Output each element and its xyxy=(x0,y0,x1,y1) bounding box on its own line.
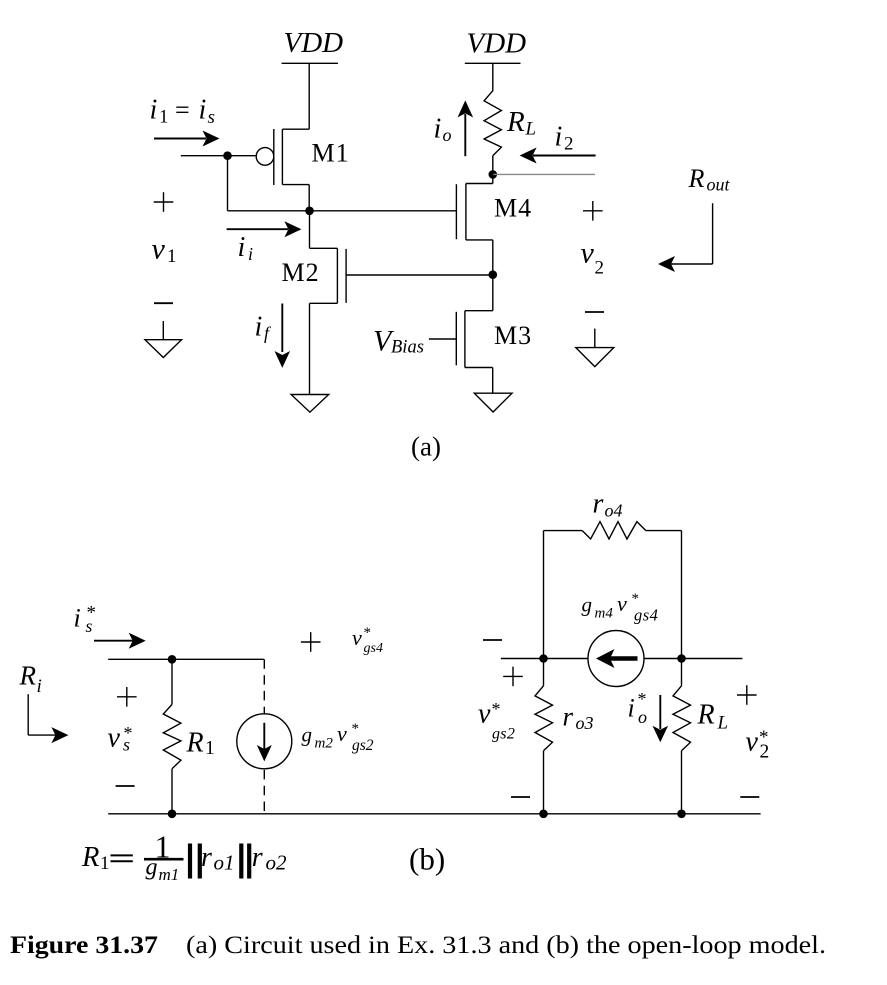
svg-text:gs2: gs2 xyxy=(352,737,374,754)
node I dot (ro3 bottom) xyxy=(539,810,548,819)
svg-text:i: i xyxy=(434,114,442,145)
label (a) xyxy=(411,432,441,462)
svg-text:i: i xyxy=(37,676,42,697)
ground under M2 xyxy=(291,395,329,413)
label vgs2* xyxy=(478,699,515,743)
resistor R1 xyxy=(163,659,214,814)
svg-text:L: L xyxy=(717,713,729,734)
ground left (v1) xyxy=(145,321,182,358)
resistor RL (b) xyxy=(673,659,728,814)
minus sign vgs4 xyxy=(483,639,502,641)
node A dot xyxy=(223,151,232,160)
label io xyxy=(434,114,452,146)
wire ro4 loop left vertical xyxy=(543,531,545,659)
svg-text:v: v xyxy=(337,721,347,746)
svg-text:R: R xyxy=(688,164,705,193)
resistor ro4 xyxy=(582,489,646,540)
arrow i1/is xyxy=(154,131,220,147)
svg-text:R: R xyxy=(81,842,99,873)
svg-text:VDD: VDD xyxy=(284,27,344,59)
wire ro4 top right xyxy=(646,530,682,532)
svg-text:Bias: Bias xyxy=(391,338,424,358)
svg-text:v: v xyxy=(581,237,595,270)
svg-text:(a) Circuit used in Ex. 31.3 a: (a) Circuit used in Ex. 31.3 and (b) the… xyxy=(186,932,826,959)
svg-text:r: r xyxy=(252,842,263,873)
label i1 = is xyxy=(150,95,215,129)
minus sign vs* xyxy=(116,785,135,787)
plus sign vs* xyxy=(117,687,137,707)
plus sign v1 xyxy=(154,192,174,212)
label vgs4* xyxy=(352,625,383,656)
svg-text:*: * xyxy=(638,689,647,709)
svg-text:M1: M1 xyxy=(312,139,350,168)
arrow io xyxy=(458,100,474,156)
svg-text:*: * xyxy=(352,721,360,737)
label v2 xyxy=(581,237,605,279)
current source gm4vgs4 xyxy=(588,631,644,687)
svg-text:v: v xyxy=(478,699,491,730)
current source gm2vgs2 xyxy=(237,714,292,769)
svg-text:Figure 31.37: Figure 31.37 xyxy=(10,932,158,959)
parallel bars 2 xyxy=(241,844,249,879)
wire mid rail (b) right xyxy=(501,658,743,660)
svg-text:1: 1 xyxy=(167,246,177,267)
wire VDD to RL xyxy=(492,63,494,91)
svg-text:*: * xyxy=(492,699,501,719)
svg-text:r: r xyxy=(201,842,212,873)
svg-text:=: = xyxy=(175,96,190,125)
svg-text:r: r xyxy=(593,489,604,520)
svg-text:o: o xyxy=(638,707,647,727)
resistor RL (a) xyxy=(484,91,536,175)
label gm4 vgs4* xyxy=(582,591,659,625)
svg-text:R: R xyxy=(697,700,715,731)
svg-text:v: v xyxy=(152,233,166,266)
label vs* xyxy=(108,723,133,755)
label v1 xyxy=(152,233,177,268)
svg-text:VDD: VDD xyxy=(467,28,527,60)
svg-text:*: * xyxy=(364,625,372,641)
svg-text:gs4: gs4 xyxy=(634,606,658,625)
wire top rail (b) left xyxy=(108,658,264,660)
arrow is* xyxy=(94,633,146,649)
svg-text:v: v xyxy=(746,727,759,758)
svg-text:1: 1 xyxy=(100,853,110,874)
wire node A down and right to gate bus xyxy=(228,156,457,211)
wire ro4 top left xyxy=(544,530,583,532)
gray wire node C to right xyxy=(493,173,595,175)
wire bottom rail (b) xyxy=(108,813,760,815)
label v2* xyxy=(746,727,770,763)
plus sign vgs4 xyxy=(301,632,321,652)
minus sign v1 xyxy=(154,302,173,304)
svg-text:g: g xyxy=(582,593,593,617)
node H dot (R1 bottom) xyxy=(168,810,177,819)
svg-text:v: v xyxy=(352,625,362,650)
svg-text:o2: o2 xyxy=(266,851,288,875)
label is* xyxy=(74,603,97,637)
label Rout xyxy=(688,164,731,195)
node E dot xyxy=(168,655,177,664)
svg-text:m2: m2 xyxy=(315,736,334,752)
svg-text:R: R xyxy=(506,106,525,138)
Ri pointer arrow xyxy=(28,694,68,743)
minus sign v2* (bottom) xyxy=(740,796,759,798)
Rout pointer arrow xyxy=(658,203,713,272)
transistor M1 (PMOS) xyxy=(256,129,349,211)
svg-text:o4: o4 xyxy=(605,501,623,521)
node D dot (M4 source / M3 drain / M2 gate) xyxy=(489,270,498,279)
VDD supply symbol left xyxy=(282,27,344,63)
svg-text:gs2: gs2 xyxy=(492,726,515,743)
label gm2 vgs2* xyxy=(302,721,374,754)
svg-text:s: s xyxy=(123,735,130,755)
VDD supply symbol right xyxy=(465,28,526,64)
svg-text:M3: M3 xyxy=(494,321,532,350)
arrow io* xyxy=(653,695,669,742)
minus sign v2 xyxy=(585,311,604,313)
equation R1 = 1/gm1 || ro1 || ro2 xyxy=(81,829,287,885)
svg-text:M4: M4 xyxy=(494,194,532,223)
svg-text:s: s xyxy=(208,107,215,128)
svg-text:i: i xyxy=(555,122,563,153)
node G dot (RL top) xyxy=(677,654,686,663)
label VBias xyxy=(373,325,424,358)
svg-text:gs4: gs4 xyxy=(364,641,383,656)
svg-text:2: 2 xyxy=(564,134,574,155)
arrow ii xyxy=(227,221,302,237)
transistor M4 (NMOS) xyxy=(456,174,532,274)
svg-text:(a): (a) xyxy=(411,432,441,462)
label (b) xyxy=(409,842,445,877)
svg-text:(b): (b) xyxy=(409,842,445,877)
resistor ro3 xyxy=(535,659,594,814)
figure caption xyxy=(10,932,826,959)
svg-text:i: i xyxy=(628,694,635,723)
svg-text:1: 1 xyxy=(205,738,215,759)
transistor M3 (NMOS) xyxy=(429,275,532,394)
svg-text:m4: m4 xyxy=(595,606,614,622)
ground under M3 xyxy=(474,393,512,412)
svg-text:i: i xyxy=(255,312,263,343)
svg-text:f: f xyxy=(264,323,272,343)
svg-text:2: 2 xyxy=(595,258,605,279)
svg-text:L: L xyxy=(525,119,537,140)
svg-text:i: i xyxy=(199,95,207,126)
parallel bars 1 xyxy=(190,844,200,879)
label Ri xyxy=(19,661,42,698)
label i2 xyxy=(555,122,574,155)
svg-text:M2: M2 xyxy=(282,258,320,287)
equals sign of equation xyxy=(111,855,133,861)
svg-text:r: r xyxy=(563,702,574,732)
svg-text:o3: o3 xyxy=(576,713,594,733)
arrow i2 xyxy=(520,148,596,164)
svg-text:out: out xyxy=(707,175,731,195)
svg-text:s: s xyxy=(86,616,93,636)
wire ro4 loop right vertical xyxy=(681,531,683,659)
svg-text:o1: o1 xyxy=(214,851,235,875)
arrow if xyxy=(275,304,291,368)
svg-text:m1: m1 xyxy=(159,865,180,884)
label ii xyxy=(238,232,254,264)
svg-text:g: g xyxy=(302,723,313,747)
svg-text:i: i xyxy=(74,604,81,633)
svg-text:1: 1 xyxy=(159,107,169,128)
plus sign v2 xyxy=(583,201,603,221)
node B dot (M1 drain / M2 drain / bus) xyxy=(305,207,314,216)
ground right (v2) xyxy=(576,329,614,367)
minus sign vgs2 (bottom) xyxy=(511,796,530,798)
svg-text:v: v xyxy=(617,591,627,616)
plus sign v2* xyxy=(737,685,757,705)
input wire to node A xyxy=(181,155,256,157)
label if xyxy=(255,312,273,344)
transistor M2 (NMOS, gate right) xyxy=(282,211,493,395)
label io* xyxy=(628,689,648,727)
svg-text:2: 2 xyxy=(760,742,770,763)
svg-text:R: R xyxy=(19,661,37,691)
svg-text:i: i xyxy=(238,232,246,263)
node J dot (RL bottom) xyxy=(677,810,686,819)
node F dot (ro3 top) xyxy=(539,654,548,663)
wire VDD to M1 source xyxy=(308,63,310,129)
svg-text:v: v xyxy=(108,723,121,754)
svg-text:o: o xyxy=(443,125,452,145)
node C dot (output node RL/M4 drain) xyxy=(489,170,498,179)
fraction bar xyxy=(144,858,184,861)
plus sign vgs2 xyxy=(503,667,523,687)
dashed gate line xyxy=(263,659,265,814)
svg-text:i: i xyxy=(248,244,253,264)
svg-text:i: i xyxy=(150,95,158,126)
svg-text:R: R xyxy=(186,728,204,759)
